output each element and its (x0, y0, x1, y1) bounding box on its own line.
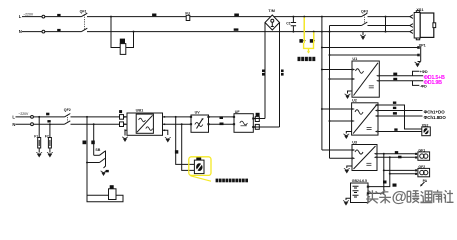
breaker QF3 pole2 (362, 22, 368, 25)
node B junction (133, 31, 135, 33)
wire label b3 (152, 14, 156, 17)
fuse FU1 body (186, 15, 190, 20)
highlight yellow stroke v2 (313, 32, 315, 43)
arrester F2 (49, 124, 51, 137)
wire label d1 (83, 141, 87, 145)
wire label bat1 (383, 181, 387, 184)
highlight yellow box (189, 157, 211, 176)
wire battery vertical a (368, 154, 384, 194)
svg-text:+ΦD: +ΦD (420, 70, 428, 74)
wire U3 input L (322, 149, 352, 151)
wire bus to QF3 mid (330, 25, 410, 27)
wire label sb-g (106, 170, 109, 172)
svg-text:UF: UF (235, 110, 241, 114)
node SB tap (86, 162, 88, 164)
converter U3 pin arrows (353, 149, 356, 159)
ground SB1 (101, 171, 107, 176)
svg-text:SB: SB (95, 148, 100, 152)
svg-text:~220V: ~220V (23, 12, 34, 16)
converter U1 sine (356, 69, 364, 74)
watermark char 南 (433, 190, 442, 203)
wire label FAS drop (175, 150, 178, 153)
ground UB1 left (125, 130, 127, 135)
PE stub arrow (362, 32, 364, 35)
wire U3 out1 (377, 153, 415, 155)
load GF1 box (418, 152, 430, 160)
svg-text:QF2: QF2 (64, 108, 71, 112)
control feed tap 1 (303, 16, 305, 18)
converter U2 box (352, 103, 378, 135)
wire U1 out2 (379, 80, 423, 82)
node A junction (110, 16, 112, 18)
wire UB1 to UV1 top (163, 116, 192, 118)
wire spare N (330, 54, 419, 56)
wire drop left long (86, 117, 88, 195)
fuse pair before UB1 (119, 110, 122, 113)
wire label u2o3 (393, 112, 397, 115)
svg-text:C1: C1 (286, 21, 291, 25)
svg-text:T/M: T/M (268, 9, 275, 13)
svg-text:U1: U1 (352, 57, 357, 61)
wire to GF2 a (383, 169, 385, 171)
breaker QF1 pole1 (82, 13, 88, 16)
svg-text:N: N (12, 122, 15, 127)
branch down to -label (413, 81, 420, 86)
regulator UV1 arrow (197, 119, 203, 128)
terminal circle N1 (42, 30, 45, 33)
breaker QF3 dashed link (364, 14, 366, 24)
wire U3 out2 (377, 156, 415, 158)
svg-text:UB1: UB1 (136, 108, 144, 112)
wire FAS drop2 (182, 124, 195, 170)
node FAS tap1 (175, 116, 177, 118)
regulator UV1 pin nubs (190, 116, 210, 125)
filter UF1 sine (240, 121, 248, 125)
wire label u2o4 (394, 128, 397, 130)
converter U3 box (352, 145, 377, 171)
svg-text:-ΦD: -ΦD (420, 84, 427, 88)
wire label u2o2 (393, 107, 396, 109)
wire label u3o1 (395, 151, 398, 154)
isolation unit UB1 outer box (127, 113, 163, 135)
arrester F1 (38, 117, 40, 138)
connector XS1 key notch (433, 23, 436, 28)
isolation unit UB1 sine2 (146, 127, 153, 131)
breaker QF2 pole2 (65, 121, 71, 124)
wire label b5 (234, 28, 239, 30)
wire diamond right leg (279, 23, 281, 128)
terminal circle N2 (31, 123, 34, 126)
svg-text:XS2: XS2 (422, 124, 429, 128)
switch SB1 bracket (104, 151, 106, 169)
isolation unit UB1 sine1 (139, 118, 146, 122)
wire label leg1 (262, 70, 265, 73)
converter U2 pin arrows (352, 108, 355, 122)
UB1 left pin marks (124, 116, 127, 131)
wire label d2 (91, 141, 95, 145)
wire label u1o1 (393, 73, 397, 76)
ground F2 (49, 148, 51, 153)
isolation unit UB1 inner box (136, 114, 153, 133)
control feed tap 2 (313, 31, 315, 33)
wire label b4 (234, 14, 239, 17)
wire label v2 (220, 123, 224, 126)
wire U3 input N (330, 157, 353, 159)
wire label b1 (57, 14, 60, 16)
filter UF1 pin nubs (233, 116, 255, 128)
switch SB1 contact2 (100, 158, 106, 162)
node arrester tap1 (38, 116, 40, 118)
highlight yellow stroke v1 (303, 17, 305, 43)
converter U2 diagonal (353, 105, 377, 134)
svg-text:U2: U2 (352, 99, 357, 103)
wire UV1 to UF1 bottom (209, 123, 235, 125)
svg-text:UV: UV (195, 111, 201, 115)
wire label m1 (46, 113, 49, 116)
svg-text:QF1: QF1 (80, 9, 87, 13)
regulator UV1 box (191, 115, 209, 132)
wire U2 out1 to socket (378, 105, 422, 129)
wire battery vertical b (368, 157, 390, 186)
converter U1 dc text (369, 85, 374, 86)
annotation text control power (298, 57, 316, 61)
wire UV1 to UF1 top (209, 116, 235, 118)
wire to GF2 b (389, 173, 391, 175)
breaker QF2 pole1 (65, 114, 71, 117)
fuse loop rectangle (87, 195, 123, 202)
wire label m2 (47, 120, 50, 122)
converter U2 dc text (367, 127, 372, 128)
lamp DK body (120, 44, 126, 55)
FAS socket box (194, 160, 204, 174)
load GF1 pins (415, 153, 417, 155)
breaker QF3 pole1 (362, 13, 368, 16)
wire spare L (322, 47, 419, 49)
wire label v1 (220, 116, 224, 119)
node battery V_a (383, 153, 385, 155)
wire label u2o1 (393, 102, 396, 104)
ground U2 (346, 132, 351, 134)
converter U3 sine (355, 150, 363, 154)
node drop SB2 (93, 123, 95, 125)
lamp DK label (120, 39, 125, 44)
node drop SB1 (86, 116, 88, 118)
load GF2 box (418, 168, 430, 176)
converter U1 diagonal (354, 63, 379, 96)
wire drop loop left (111, 17, 134, 48)
highlight yellow leader (191, 176, 212, 181)
svg-text:N: N (19, 29, 22, 34)
ground below XP2 (415, 62, 421, 67)
wire UF1 out top to leg (253, 118, 265, 120)
connector XS1 housing (420, 13, 434, 37)
ground UB1 right (163, 130, 168, 135)
wire N2 (16, 123, 128, 125)
converter U1 box (352, 61, 379, 97)
battery pin nubs (367, 186, 369, 188)
svg-text:ΦCh1.8DO: ΦCh1.8DO (424, 115, 447, 120)
bus vertical V2 (329, 26, 331, 159)
node arrester tap2 (49, 123, 51, 125)
svg-text:GF1: GF1 (418, 148, 425, 152)
fuse FU2 label (110, 185, 114, 188)
wire L2 (16, 116, 128, 118)
battery GB box (351, 183, 369, 203)
svg-text:QF3: QF3 (361, 9, 368, 13)
FAS socket label (196, 157, 201, 160)
wire UB1 to UV1 bottom (163, 123, 192, 125)
converter U3 dc text (366, 163, 371, 164)
wire FAS drop1 (176, 117, 195, 164)
connector arrows XP1 (410, 15, 413, 34)
socket XS2 (422, 127, 431, 136)
wire U1 input N (330, 78, 353, 80)
ground battery (346, 198, 351, 200)
node V1 junctions (321, 16, 323, 18)
highlight yellow bracket (304, 43, 314, 51)
filter UF1 box (234, 114, 253, 133)
wire U1 input L (322, 69, 352, 71)
connector XP2 pins (417, 46, 420, 49)
fuse pair after UF1 (256, 113, 260, 116)
svg-text:U3: U3 (352, 140, 357, 144)
svg-text:L: L (12, 114, 15, 119)
converter U2 sine (355, 110, 363, 115)
svg-text:XS1: XS1 (416, 8, 423, 12)
wire label u3o2 (398, 156, 401, 159)
wire U2 out2 (378, 110, 423, 112)
node battery V_b (389, 156, 391, 158)
watermark char 条 (379, 190, 391, 204)
branch up to +label (413, 71, 420, 76)
fuse FU2 body (109, 189, 117, 200)
wire N-PE link (385, 17, 387, 32)
battery cells (353, 186, 359, 197)
wire label tap1 (299, 39, 303, 43)
transfer switch inner mark (271, 19, 274, 22)
terminal circle L1 (42, 15, 45, 18)
connector XP1 pin strip (414, 13, 420, 39)
wire U2 input L (322, 108, 352, 110)
svg-text:L: L (19, 14, 22, 19)
switch SB1 stub1 (94, 154, 100, 156)
breaker QF2 dashed link (67, 115, 69, 123)
svg-text:PA: PA (423, 179, 428, 183)
converter U1 pin arrows (353, 69, 356, 81)
wire U2 out3 (378, 115, 423, 117)
breaker QF1 dashed link (84, 14, 86, 30)
svg-text:~220V: ~220V (18, 112, 29, 116)
ground U1 (348, 91, 353, 94)
capacitor C1 (292, 16, 294, 18)
watermark char 头 (366, 190, 378, 203)
wire N1 top (22, 31, 410, 33)
annotation text FAS (216, 179, 248, 183)
wire label leg2 (281, 70, 284, 73)
svg-text:FU: FU (185, 11, 190, 15)
wire diamond left leg (264, 23, 266, 119)
switch SB1 contact1 (100, 151, 106, 155)
wire L1 top (22, 16, 410, 18)
node V2 junctions (329, 31, 331, 33)
ground U3 (347, 166, 352, 168)
node FAS tap2 (181, 123, 183, 125)
watermark char 暖 (407, 191, 419, 203)
svg-text:GF2: GF2 (418, 165, 425, 169)
wire U2 out4 (378, 131, 422, 133)
wire UF1 out bottom to leg (253, 126, 279, 128)
wire label u1o2 (393, 78, 397, 80)
transfer switch T/M diamond (265, 15, 280, 30)
svg-text:@: @ (392, 189, 407, 206)
ground F1 (38, 148, 40, 153)
wire drop right (93, 124, 95, 155)
wire label tap2 (310, 39, 314, 43)
UB1 right pin marks (163, 116, 166, 131)
breaker QF1 pole2 (82, 28, 88, 31)
switch SB1 stub2 (87, 162, 100, 164)
bus vertical V1 (321, 17, 323, 150)
wire U2 input N (330, 120, 352, 122)
watermark char 社 (444, 190, 454, 203)
regulator UV1 sine (195, 123, 203, 127)
isolation unit UB1 diagonal (137, 115, 153, 132)
wire label b2 (57, 29, 60, 31)
wire label bat2 (393, 184, 397, 187)
load GF2 pins (415, 169, 417, 171)
watermark char 通 (420, 191, 432, 203)
converter U3 diagonal (354, 146, 376, 169)
terminal circle L2 (31, 116, 34, 119)
wire U1 out1 (379, 75, 423, 77)
